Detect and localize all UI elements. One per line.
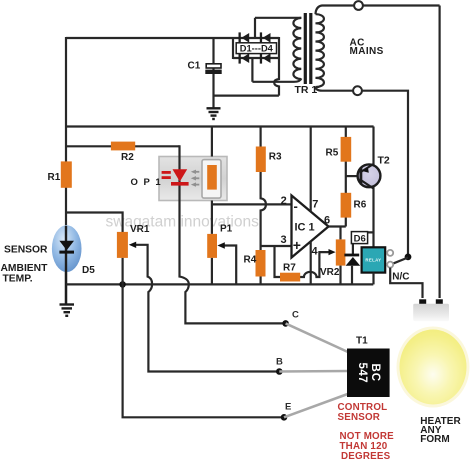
- svg-text:R1: R1: [48, 172, 61, 183]
- wire right rail to heater: [439, 6, 441, 299]
- node B dot: [276, 368, 283, 375]
- wire pin4: [310, 241, 312, 284]
- svg-text:2: 2: [281, 195, 287, 207]
- svg-text:+: +: [293, 237, 301, 253]
- gray lead E to T1: [284, 394, 349, 418]
- op-amp IC1: [292, 196, 329, 258]
- R4 bottom lead: [260, 277, 262, 285]
- wire pin2 from OP1 node: [212, 203, 292, 205]
- wire VR1 branch: [66, 213, 123, 233]
- relay switch arm: [392, 258, 409, 265]
- OP1 inner box: [202, 160, 221, 199]
- wire C1 to bridge right: [214, 94, 279, 96]
- resistor R5: [341, 137, 352, 162]
- svg-text:C1: C1: [188, 61, 201, 72]
- relay contact circles: [387, 250, 393, 256]
- svg-text:N/C: N/C: [392, 272, 409, 283]
- svg-text:T1: T1: [356, 336, 368, 347]
- svg-text:RELAY: RELAY: [365, 258, 381, 263]
- wire pin7: [310, 127, 312, 212]
- svg-text:D5: D5: [82, 265, 95, 276]
- transformer TR1 secondary coil: [316, 14, 324, 87]
- node E dot: [281, 414, 288, 421]
- OP1 light arrows: [191, 170, 200, 187]
- relay box: [362, 247, 386, 272]
- svg-text:R3: R3: [269, 152, 282, 163]
- svg-text:VR2: VR2: [320, 267, 340, 278]
- svg-text:7: 7: [312, 199, 318, 211]
- svg-text:R7: R7: [283, 263, 296, 274]
- svg-text:VR1: VR1: [130, 224, 150, 235]
- svg-text:O P 1: O P 1: [131, 177, 163, 188]
- wire bridge bottom feed: [251, 58, 253, 82]
- diode D6: [344, 254, 360, 266]
- resistor R1: [61, 161, 72, 187]
- relay common dot: [405, 254, 412, 261]
- OP1 photo resistor: [207, 165, 217, 190]
- resistor R3 with lead and hop over pin2 wire: [261, 127, 266, 251]
- capacitor C1: [205, 64, 221, 74]
- svg-text:B: B: [276, 357, 283, 368]
- potentiometer VR1: [117, 232, 128, 258]
- gray lead B to T1: [279, 370, 349, 373]
- svg-text:R2: R2: [121, 152, 134, 163]
- svg-text:SENSOR: SENSOR: [4, 244, 48, 255]
- svg-text:4: 4: [312, 246, 319, 258]
- svg-text:BC: BC: [369, 363, 381, 382]
- svg-text:547: 547: [356, 362, 368, 383]
- wire through D5: [65, 226, 67, 304]
- diode D1 (bridge top left): [239, 32, 250, 43]
- heater bulb base: [413, 304, 449, 321]
- wire T2 base: [346, 175, 360, 177]
- svg-text:E: E: [285, 402, 291, 413]
- svg-text:T2: T2: [378, 155, 390, 167]
- wire main bus: [65, 125, 374, 127]
- wire E row: [123, 284, 284, 417]
- wire R2 branch: [66, 145, 180, 147]
- VR1 bottom lead: [121, 258, 123, 285]
- VR1 wiper arrow and wire to B: [129, 242, 279, 372]
- svg-text:D6: D6: [354, 234, 366, 245]
- svg-text:R6: R6: [354, 199, 367, 210]
- svg-text:MAINS: MAINS: [350, 46, 384, 57]
- potentiometer P1: [207, 234, 217, 258]
- label box D1 D4: [236, 43, 276, 54]
- resistor R7 body: [280, 273, 300, 282]
- svg-text:TEMP.: TEMP.: [3, 273, 33, 284]
- transformer TR1 core: [304, 13, 307, 84]
- wire bridge bottom edge: [233, 57, 279, 59]
- label box D6: [351, 232, 367, 244]
- wire pin3: [261, 245, 292, 247]
- wire R5 R6 chain from bus: [345, 127, 347, 227]
- ground below C1: [207, 108, 221, 119]
- transformer TR1 primary coil: [293, 18, 301, 79]
- wire D6 top link: [353, 232, 374, 255]
- D6 bottom lead: [351, 266, 353, 285]
- optocoupler OP1 box: [159, 157, 227, 201]
- wire NC to heater: [390, 268, 422, 298]
- wire secondary bottom lead: [316, 87, 354, 91]
- svg-text:P1: P1: [220, 224, 233, 235]
- diode D2 (bridge top right): [260, 32, 271, 43]
- transistor T2: [358, 164, 381, 189]
- wire primary bottom lead: [252, 79, 301, 82]
- resistor R4: [256, 250, 266, 277]
- wire C1 stem: [212, 38, 214, 108]
- heater bulb pins: [419, 299, 426, 305]
- diode D4 (bridge bottom right): [260, 53, 271, 64]
- svg-text:DEGREES: DEGREES: [341, 451, 391, 459]
- transistor T1 BC547 box: [347, 349, 390, 398]
- wire top left horizontal / bridge top edge: [66, 37, 279, 39]
- svg-text:IC 1: IC 1: [295, 222, 315, 234]
- svg-text:AMBIENT: AMBIENT: [1, 263, 49, 274]
- OP1 top lead from bus: [211, 127, 213, 157]
- OP1 bottom lead to P1 and pin2 node: [211, 201, 213, 234]
- OP1 LED symbol: [162, 169, 189, 185]
- svg-text:swagatam innovations: swagatam innovations: [106, 214, 260, 231]
- P1 bottom lead: [211, 258, 213, 285]
- svg-text:R5: R5: [326, 148, 339, 159]
- heater bulb glow: [397, 327, 470, 408]
- wire AC bottom to relay rail: [362, 91, 408, 254]
- potentiometer VR2: [339, 227, 341, 240]
- wire bridge left edge: [232, 37, 234, 59]
- wire pin6 from apex: [329, 225, 346, 227]
- ground below D5: [60, 305, 75, 316]
- sensor D5 body: [52, 225, 82, 272]
- wire primary top lead: [255, 17, 301, 19]
- heater bulb: [400, 330, 467, 405]
- svg-text:C: C: [292, 310, 299, 321]
- wire T2 emitter to relay: [372, 187, 374, 248]
- wire AC top to right rail: [363, 4, 440, 6]
- diode D5 symbol: [59, 241, 74, 254]
- resistor R2: [111, 142, 135, 151]
- wire AC feed to bridge top: [254, 18, 256, 38]
- relay bottom lead: [372, 273, 374, 285]
- VR2 wiper arrowhead: [329, 249, 336, 255]
- wire secondary top lead: [316, 6, 355, 15]
- AC terminal bottom: [353, 86, 362, 95]
- OP1 LED wire from R2 down through box to C row: [180, 145, 286, 323]
- wire T2 collector to bus: [372, 127, 374, 166]
- svg-text:-: -: [294, 199, 298, 214]
- svg-text:TR 1: TR 1: [295, 84, 318, 96]
- wire left rail: [65, 37, 67, 304]
- resistor R7 wire with hop over pin4: [275, 246, 332, 277]
- gray lead C to T1: [286, 323, 349, 352]
- node C dot: [282, 320, 289, 327]
- svg-text:D1---D4: D1---D4: [240, 44, 274, 54]
- svg-text:R4: R4: [244, 255, 257, 266]
- P1 wiper arrow wire: [217, 242, 236, 284]
- wire bridge right edge with hop: [274, 37, 279, 96]
- wire ground bus y284: [66, 283, 373, 285]
- junction dot: [119, 281, 126, 288]
- diode D3 (bridge bottom left): [239, 53, 250, 64]
- svg-text:FORM: FORM: [420, 434, 449, 445]
- svg-text:6: 6: [324, 215, 330, 227]
- svg-text:3: 3: [281, 234, 287, 246]
- svg-text:SENSOR: SENSOR: [338, 412, 381, 423]
- resistor R6: [341, 193, 352, 218]
- AC terminal top: [354, 1, 363, 10]
